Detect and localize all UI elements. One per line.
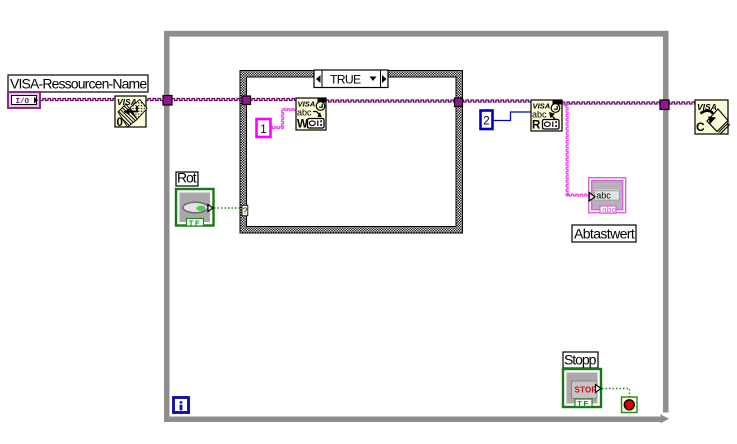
svg-text:TRUE: TRUE xyxy=(330,73,361,87)
svg-text:TF: TF xyxy=(189,218,201,227)
svg-text:abc: abc xyxy=(532,110,547,120)
svg-text:STOP: STOP xyxy=(575,386,598,395)
svg-text:abc: abc xyxy=(602,204,616,214)
svg-text:R: R xyxy=(532,120,541,132)
svg-text:I/O: I/O xyxy=(16,98,30,106)
svg-text:abc: abc xyxy=(596,191,611,201)
svg-text:abc: abc xyxy=(297,108,312,118)
svg-text:TF: TF xyxy=(577,399,589,408)
svg-text:Abtastwert: Abtastwert xyxy=(574,226,635,242)
svg-text:W: W xyxy=(297,119,308,131)
svg-text:?: ? xyxy=(243,207,248,216)
svg-text:Stopp: Stopp xyxy=(564,352,597,368)
svg-text:2: 2 xyxy=(483,116,489,128)
svg-text:1: 1 xyxy=(260,124,266,136)
svg-text:C: C xyxy=(696,120,705,134)
svg-text:VISA-Ressourcen-Name: VISA-Ressourcen-Name xyxy=(10,76,147,92)
svg-text:Rot: Rot xyxy=(177,170,197,186)
svg-text:0: 0 xyxy=(117,117,123,129)
